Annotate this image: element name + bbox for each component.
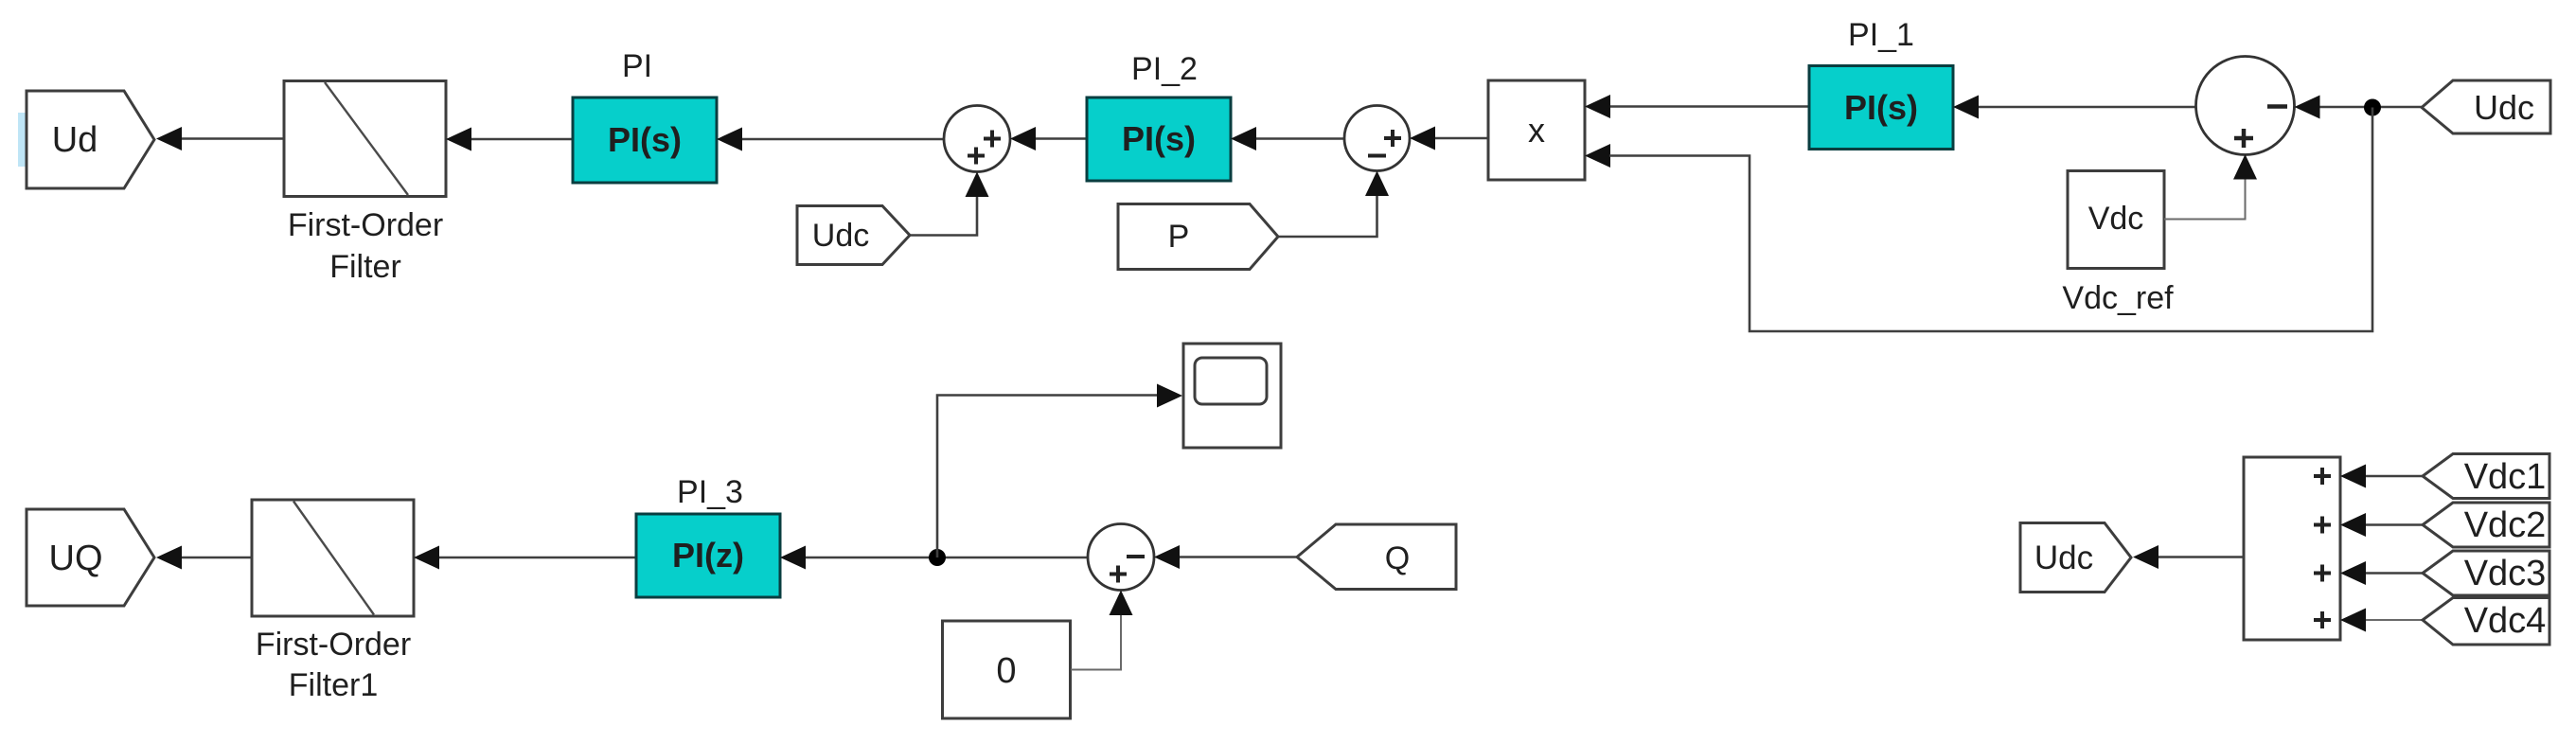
Vdc_ref constant block xyxy=(2068,171,2164,269)
wire Vdc3 to add xyxy=(2364,572,2423,575)
label First-Order Filter1 xyxy=(256,627,411,703)
wire Vdc4 to add xyxy=(2364,619,2423,621)
svg-text:Filter1: Filter1 xyxy=(289,667,378,703)
wire Vdc2 to add xyxy=(2364,523,2423,526)
arrowhead into PI_2 xyxy=(1231,127,1256,150)
wire sum4 to PI_3 xyxy=(805,557,1088,559)
wire Vdc1 to add xyxy=(2364,475,2423,478)
arrowhead into Udc bottom tag xyxy=(2133,545,2159,569)
goto tag UQ xyxy=(27,509,154,606)
sum2 circle +- xyxy=(1344,106,1410,171)
product block x xyxy=(1488,80,1585,180)
arrowhead into x top input xyxy=(1585,95,1610,118)
arrowhead into sum2 right xyxy=(1410,127,1435,150)
wire PI to filter xyxy=(471,138,574,141)
cyan strip xyxy=(18,113,27,167)
svg-text:Udc: Udc xyxy=(812,218,869,254)
svg-text:Udc: Udc xyxy=(2034,540,2093,576)
svg-text:PI_2: PI_2 xyxy=(1131,51,1198,87)
arrowhead into sum4 right xyxy=(1154,545,1180,569)
wire add to Udc bottom tag xyxy=(2158,556,2244,558)
arrowhead into filter xyxy=(446,128,471,151)
wire Q to sum4 xyxy=(1178,556,1297,558)
wire sum3 to PI_1 xyxy=(1978,106,2196,109)
arrowhead into filter1 xyxy=(414,546,439,570)
PI_2 block PI(s) xyxy=(1087,97,1231,181)
svg-text:UQ: UQ xyxy=(49,539,103,578)
wire filter1 to UQ xyxy=(181,557,252,559)
arrowhead into UQ xyxy=(156,546,182,570)
svg-text:Q: Q xyxy=(1385,540,1410,576)
from tag Vdc2 xyxy=(2423,503,2549,547)
arrowhead into PI_3 xyxy=(780,546,806,570)
PI block PI(s) xyxy=(573,97,717,183)
wire filter to Ud xyxy=(181,137,284,140)
svg-text:0: 0 xyxy=(996,651,1016,691)
wire Udc node to sum3 xyxy=(2318,106,2422,109)
svg-text:Ud: Ud xyxy=(52,120,98,160)
wire PI_2 to sum1 xyxy=(1034,137,1087,140)
arrowhead into PI_1 xyxy=(1953,96,1979,119)
arrowhead into PI xyxy=(717,128,742,151)
arrowhead add input 2 xyxy=(2340,513,2366,537)
svg-text:Vdc: Vdc xyxy=(2088,201,2144,237)
arrowhead into sum4 bottom xyxy=(1110,591,1133,616)
wire Udc to sum1 bottom xyxy=(910,195,977,236)
arrowhead into Ud xyxy=(156,127,182,150)
goto tag Ud xyxy=(27,91,154,188)
sum1 circle ++ xyxy=(944,106,1010,172)
PI_3 block PI(z) xyxy=(636,514,780,597)
svg-text:PI(s): PI(s) xyxy=(1844,88,1918,127)
arrowhead add input 1 xyxy=(2340,465,2366,488)
feedback wire Udc node to x bottom input xyxy=(1609,108,2372,332)
from tag Vdc4 xyxy=(2423,598,2549,646)
wire sum2 to PI_2 xyxy=(1255,137,1344,140)
svg-text:PI_1: PI_1 xyxy=(1848,17,1914,53)
wire 0 to sum4 bottom xyxy=(1071,613,1121,670)
wire Vdc to sum3 bottom xyxy=(2164,178,2246,220)
svg-text:Vdc1: Vdc1 xyxy=(2464,457,2547,497)
svg-text:x: x xyxy=(1528,111,1545,150)
svg-text:Vdc4: Vdc4 xyxy=(2464,601,2547,641)
svg-text:Udc: Udc xyxy=(2474,88,2534,127)
first-order filter1 block xyxy=(252,500,414,616)
arrowhead into sum1 bottom xyxy=(966,172,989,198)
junction dot node Udc xyxy=(2364,99,2381,116)
arrowhead add input 3 xyxy=(2340,561,2366,585)
wire sum1 to PI xyxy=(741,138,944,141)
svg-text:First-Order: First-Order xyxy=(288,207,443,243)
wire PI_1 to x top input xyxy=(1608,105,1810,108)
goto tag P xyxy=(1118,204,1278,270)
svg-text:PI(z): PI(z) xyxy=(672,536,744,575)
svg-text:Vdc2: Vdc2 xyxy=(2464,505,2547,545)
arrowhead into sum3 bottom xyxy=(2233,154,2257,180)
svg-text:PI(s): PI(s) xyxy=(608,120,682,159)
junction dot bottom xyxy=(929,549,946,566)
scope block xyxy=(1183,344,1281,448)
goto tag Udc bottom xyxy=(2020,523,2131,593)
svg-text:PI(s): PI(s) xyxy=(1122,119,1196,158)
wire P to sum2 bottom xyxy=(1278,195,1377,238)
wire node to scope xyxy=(937,396,1157,558)
add block xyxy=(2244,457,2340,640)
PI_1 block PI(s) xyxy=(1809,66,1953,150)
arrowhead into x bottom input xyxy=(1585,144,1610,168)
svg-text:PI_3: PI_3 xyxy=(677,474,743,510)
from tag Vdc3 xyxy=(2423,551,2549,595)
svg-text:P: P xyxy=(1168,219,1190,255)
first-order filter block xyxy=(284,81,446,197)
sum3 circle -+ xyxy=(2196,57,2295,155)
goto tag Udc mid xyxy=(797,206,910,265)
svg-text:Vdc3: Vdc3 xyxy=(2464,554,2547,593)
svg-text:Vdc_ref: Vdc_ref xyxy=(2062,280,2174,316)
wire PI_3 to filter1 xyxy=(438,557,636,559)
arrowhead into scope xyxy=(1157,384,1182,408)
svg-text:First-Order: First-Order xyxy=(256,627,411,663)
svg-text:PI: PI xyxy=(622,48,652,84)
constant block 0 xyxy=(943,621,1071,718)
svg-text:Filter: Filter xyxy=(329,249,401,285)
sum4 circle -+ xyxy=(1088,524,1154,591)
arrowhead add input 4 xyxy=(2340,609,2366,632)
arrowhead into sum1 right xyxy=(1010,127,1036,150)
from tag Q xyxy=(1297,524,1456,590)
from tag Vdc1 xyxy=(2423,454,2549,499)
arrowhead into sum2 bottom xyxy=(1365,171,1389,197)
wire x to sum2 xyxy=(1433,137,1488,140)
from tag Udc top right xyxy=(2422,80,2550,133)
arrowhead into sum3 right xyxy=(2295,96,2320,119)
label First-Order Filter xyxy=(288,207,443,285)
